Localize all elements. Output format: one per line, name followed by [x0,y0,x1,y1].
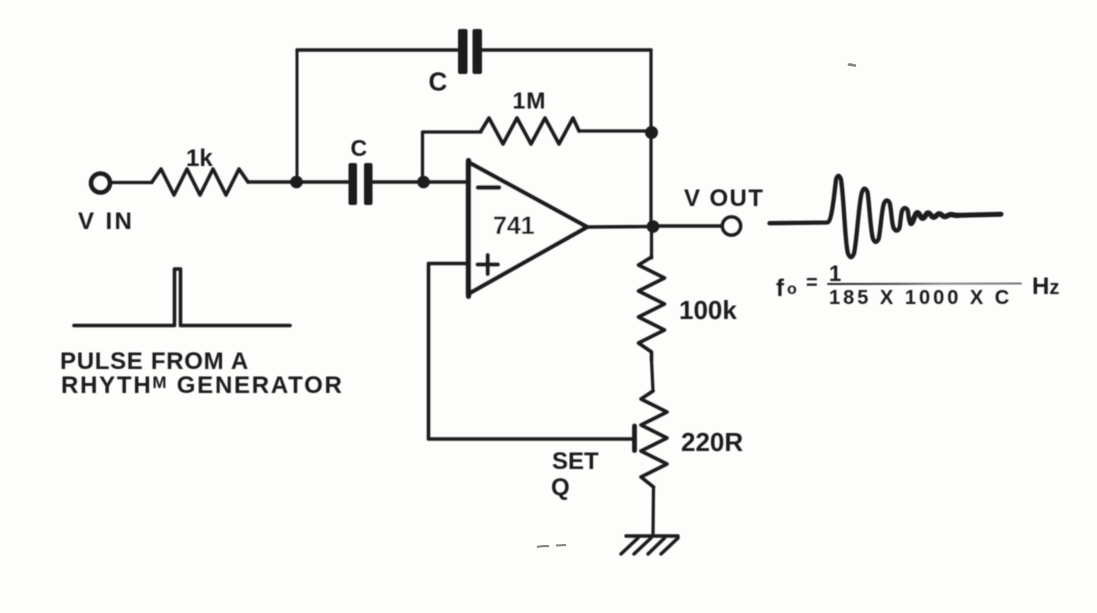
svg-text:100k: 100k [679,295,737,325]
output waveform settled line [956,214,1001,215]
svg-text:185 X 1000 X C: 185 X 1000 X C [829,287,1012,309]
wire 220R to ground [651,487,655,535]
node B [417,176,430,189]
wire top rail right segment [482,48,651,51]
svg-text:=: = [806,272,818,294]
wire 100k to 220R [652,360,654,391]
wiper tick [632,426,637,451]
ground [621,536,678,554]
wire node D to V OUT terminal [659,224,722,227]
svg-text:Hz: Hz [1032,273,1059,300]
resistor R2 1M [481,118,579,144]
svg-text:1k: 1k [186,145,213,172]
scan specks (decorative) [537,65,856,547]
node D (output junction) [647,220,660,233]
node C (feedback junction) [645,126,658,139]
svg-text:C: C [429,67,448,97]
svg-text:SET: SET [552,448,599,475]
svg-text:220R: 220R [681,427,743,457]
output ringing waveform [770,176,911,258]
formula fo = 1/(185 X 1000 X C) Hz [776,261,1059,309]
terminal V OUT [722,217,740,235]
svg-text:Q: Q [551,474,570,501]
wire top rail left segment [297,48,457,51]
capacitor C2 (series) [349,163,373,205]
svg-text:C: C [351,135,368,161]
wire wiper to + input [429,264,634,440]
wire series C to op-amp inverting input [372,180,468,183]
svg-text:f: f [776,275,785,302]
output waveform decaying tail [911,213,958,224]
wire op-amp output to node D [587,225,653,229]
capacitor C1 (top) [458,29,482,74]
potentiometer R4 220R [641,391,667,487]
wire node A up to top rail [296,50,299,182]
svg-text:V OUT: V OUT [684,185,764,212]
resistor R3 100k [639,257,665,360]
terminal V IN [91,174,110,193]
svg-text:1: 1 [829,261,841,286]
resistor R1 1k [152,169,248,195]
wire node B up to 1M leg [423,132,482,182]
svg-text:V IN: V IN [78,208,134,235]
wire right vertical from top rail to output node [649,50,652,228]
svg-text:741: 741 [493,212,535,240]
wire 1k to node A and on to series C [248,180,349,183]
op-amp inverting input marker [478,185,499,190]
svg-text:1M: 1M [513,88,547,114]
fraction bar [828,283,1021,286]
op-amp non-inverting input marker [478,255,499,274]
wire output node down to 100k [650,228,653,258]
svg-text:PULSE FROM A: PULSE FROM A [60,348,249,375]
pulse waveform [74,269,290,326]
wire 1M to right vertical [579,129,651,132]
op-amp U1 triangle [468,162,587,294]
svg-text:o: o [787,281,797,298]
wire input to 1k [111,181,152,184]
svg-text:RHYTHM GENERATOR: RHYTHM GENERATOR [61,372,344,399]
node A [290,176,303,189]
